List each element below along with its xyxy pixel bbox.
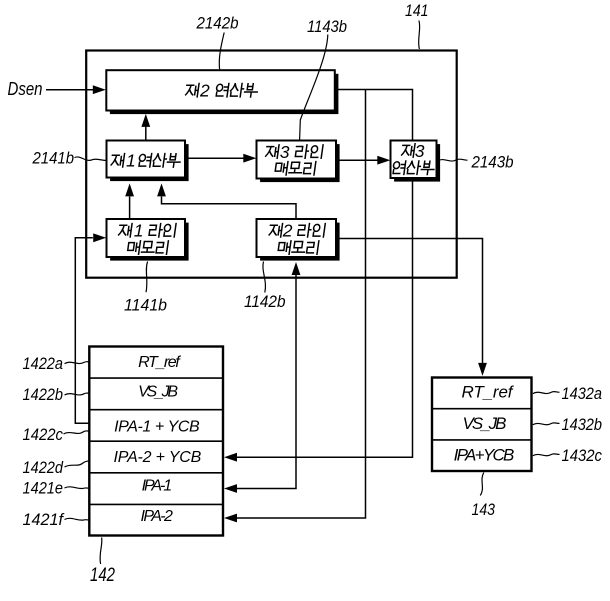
text 제3 라인 메모리 xyxy=(265,142,323,175)
svg-text:IPA-1: IPA-1 xyxy=(142,478,173,495)
svg-text:2: 2 xyxy=(282,221,293,241)
svg-text:1422d: 1422d xyxy=(23,459,64,477)
outer block 141 xyxy=(86,51,457,278)
wire 제2 연산부 output down to IPA-2+YCB row xyxy=(224,90,413,462)
svg-text:1: 1 xyxy=(126,151,136,171)
svg-text:IPA+YCB: IPA+YCB xyxy=(454,446,515,465)
box 제2 라인 메모리 (1142b) xyxy=(257,219,340,261)
svg-text:1422c: 1422c xyxy=(23,426,64,444)
svg-text:Dsen: Dsen xyxy=(8,79,43,99)
svg-text:1: 1 xyxy=(134,221,144,241)
leader 142 xyxy=(100,538,102,565)
leader 1142b xyxy=(263,262,266,293)
svg-text:3: 3 xyxy=(280,142,290,162)
svg-text:VS_JB: VS_JB xyxy=(138,384,178,401)
svg-text:IPA-1 + YCB: IPA-1 + YCB xyxy=(114,419,200,436)
svg-text:1143b: 1143b xyxy=(307,18,347,36)
wire 제1 연산부 to 제2 연산부 xyxy=(141,114,150,141)
text 제1 연산부 xyxy=(111,151,181,171)
wire Dsen input arrow xyxy=(46,85,106,94)
svg-text:IPA-2 + YCB: IPA-2 + YCB xyxy=(114,449,202,466)
text 제1 라인 메모리 xyxy=(118,221,176,255)
wire 제2 라인 메모리 right to table 143 xyxy=(335,239,487,376)
register table 142 xyxy=(89,347,223,536)
svg-text:IPA-2: IPA-2 xyxy=(141,508,173,525)
svg-text:VS_JB: VS_JB xyxy=(463,414,507,433)
svg-text:142: 142 xyxy=(90,565,115,586)
leader 1422c xyxy=(64,431,90,434)
register table 143 xyxy=(432,378,532,472)
box 제1 연산부 (2141b) xyxy=(107,141,189,182)
leader 2143b xyxy=(438,159,468,161)
svg-text:1432b: 1432b xyxy=(562,416,603,434)
box 제2 연산부 (2142b) xyxy=(106,70,338,114)
text 제2 연산부 xyxy=(185,81,258,101)
leader 1432b xyxy=(533,423,560,425)
leader 1421f xyxy=(65,518,90,520)
box 제3 연산부 (2143b) xyxy=(391,141,441,182)
leader 1143b xyxy=(300,35,328,140)
leader 1422d xyxy=(65,461,90,468)
svg-text:143: 143 xyxy=(472,500,496,519)
leader 1422b xyxy=(65,393,90,395)
leader 143 xyxy=(480,473,484,496)
svg-text:1422b: 1422b xyxy=(23,386,64,404)
svg-text:3: 3 xyxy=(415,141,425,161)
svg-text:2: 2 xyxy=(199,81,210,101)
wire 제2 라인 메모리 bottom to IPA-1 row xyxy=(224,262,300,493)
table 142 row texts xyxy=(114,354,202,525)
wire IPA-1+YCB row to 제1 라인 메모리 xyxy=(75,233,106,423)
svg-text:RT_ref: RT_ref xyxy=(138,354,181,371)
leader 2141b xyxy=(75,157,106,160)
text 제2 라인 메모리 xyxy=(269,221,325,255)
wire 제1 연산부 to 제3 라인 메모리 xyxy=(185,154,257,163)
leader 1432a xyxy=(533,392,560,394)
svg-text:1432a: 1432a xyxy=(562,385,603,403)
table 143 row texts xyxy=(454,383,515,465)
text 제3 연산부 xyxy=(392,141,435,175)
leader 2142b xyxy=(219,33,224,70)
wire 제1 라인 메모리 top to 제1 연산부 xyxy=(125,183,134,219)
svg-text:RT_ref: RT_ref xyxy=(462,383,515,402)
svg-text:1421e: 1421e xyxy=(23,479,64,497)
leader 1141b xyxy=(146,262,148,293)
svg-text:2142b: 2142b xyxy=(196,15,239,33)
leader 1422a xyxy=(65,362,90,364)
svg-text:2141b: 2141b xyxy=(32,150,74,168)
wire 제3 라인 메모리 to 제3 연산부 xyxy=(336,156,390,165)
leader 1432c xyxy=(533,454,560,456)
svg-text:1142b: 1142b xyxy=(244,293,286,311)
wire 제2 라인 메모리 top to 제1 연산부 xyxy=(157,183,296,219)
svg-text:1421f: 1421f xyxy=(23,511,66,529)
box 제3 라인 메모리 (1143b) xyxy=(257,141,340,183)
svg-text:1141b: 1141b xyxy=(124,297,167,315)
svg-text:141: 141 xyxy=(405,2,429,20)
svg-text:1422a: 1422a xyxy=(23,355,64,373)
wire 제2 연산부 output branch down to IPA-2 row xyxy=(224,90,366,523)
svg-text:1432c: 1432c xyxy=(562,447,603,465)
svg-text:2143b: 2143b xyxy=(471,153,514,171)
leader 141 xyxy=(419,21,420,50)
leader 1421e xyxy=(65,487,90,489)
box 제1 라인 메모리 (1141b) xyxy=(107,219,189,261)
